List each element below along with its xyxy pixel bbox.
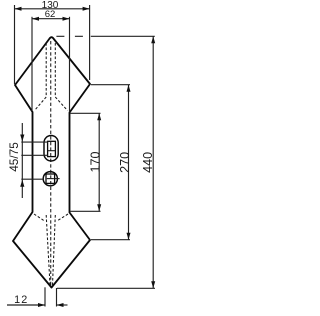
- dimension 45/75: upper hole-center tick (45 position): [21, 154, 48, 156]
- blade outline (double-ended reversible point): [13, 37, 90, 287]
- hidden line lower-left junction: [34, 214, 45, 221]
- dimension 12: right extension line: [56, 288, 58, 307]
- hidden rib line upper left: [35, 43, 47, 111]
- dimension 440: dimension line: [152, 36, 154, 288]
- dimension 170: bottom arrowhead: [97, 204, 101, 211]
- dimension 440: bottom arrowhead: [151, 281, 155, 288]
- square section of round hole: [46, 174, 55, 183]
- dimension 170: bottom extension line: [71, 210, 101, 212]
- round hole outline: [43, 172, 57, 186]
- svg-text:440: 440: [141, 152, 155, 173]
- dimension 62: right extension line: [69, 17, 71, 112]
- vertical centerline (dashed): [50, 41, 52, 286]
- svg-text:12: 12: [14, 294, 28, 306]
- dimension 270: bottom extension line: [91, 239, 130, 241]
- dimension 62: dimension line: [32, 18, 70, 20]
- slot divider line inside slotted hole: [48, 150, 55, 152]
- dimension 270: dimension line: [128, 85, 130, 240]
- dimension 45/75: dimension line: [21, 123, 23, 198]
- dimension 45/75: upper hole-center tick (75 position): [21, 141, 48, 143]
- dimension 12: right arrowhead: [57, 303, 64, 307]
- dimension 12: left dimension line: [7, 304, 45, 306]
- dimension 170: top extension line: [71, 112, 101, 114]
- hidden rib line upper right: [55, 43, 67, 111]
- hidden rib line lower right: [53, 215, 56, 285]
- dimension 270: bottom arrowhead: [127, 233, 131, 240]
- dimension 170: dimension line: [98, 113, 100, 211]
- dimension 12: right dimension line: [57, 304, 68, 306]
- dimension 170: top arrowhead: [97, 113, 101, 120]
- dimension 130: right arrowhead: [83, 7, 90, 11]
- hidden rib line lower left: [46, 215, 50, 285]
- dimension 440: bottom extension line: [57, 287, 155, 289]
- dimension 62: right arrowhead: [63, 17, 70, 21]
- center tick inside round hole: [47, 178, 54, 180]
- dimension 45/75: top arrowhead: [20, 135, 24, 142]
- right center tick of round hole: [55, 178, 60, 180]
- slotted hole outer outline: [44, 136, 58, 162]
- dimension 270: top arrowhead: [127, 85, 131, 92]
- dimension 130: left extension line: [14, 5, 16, 84]
- dimension 270: top extension line: [91, 84, 130, 86]
- dimension 12: left extension line: [44, 287, 46, 306]
- dimension 130: dimension line: [15, 8, 90, 10]
- svg-text:170: 170: [88, 151, 102, 172]
- dimension 440: top arrowhead: [151, 36, 155, 43]
- dimension 62: left arrowhead: [32, 17, 39, 21]
- dimension 440: top extension line: [91, 35, 155, 37]
- svg-text:270: 270: [118, 152, 132, 173]
- dimension 130: right extension line: [89, 5, 91, 80]
- slotted hole inner square section: [48, 141, 56, 156]
- hidden line lower-right junction: [57, 214, 68, 221]
- svg-text:62: 62: [45, 9, 56, 20]
- dimension 45/75: bottom arrowhead: [20, 180, 24, 187]
- dimension 130: left arrowhead: [15, 7, 22, 11]
- dimension 62: left extension line: [31, 17, 33, 111]
- svg-text:45/75: 45/75: [7, 142, 21, 172]
- dimension 45/75: lower hole-center tick: [21, 178, 43, 180]
- dimension 12: left arrowhead: [38, 303, 45, 307]
- dimension 440: top extension dashes from tip: [56, 35, 86, 37]
